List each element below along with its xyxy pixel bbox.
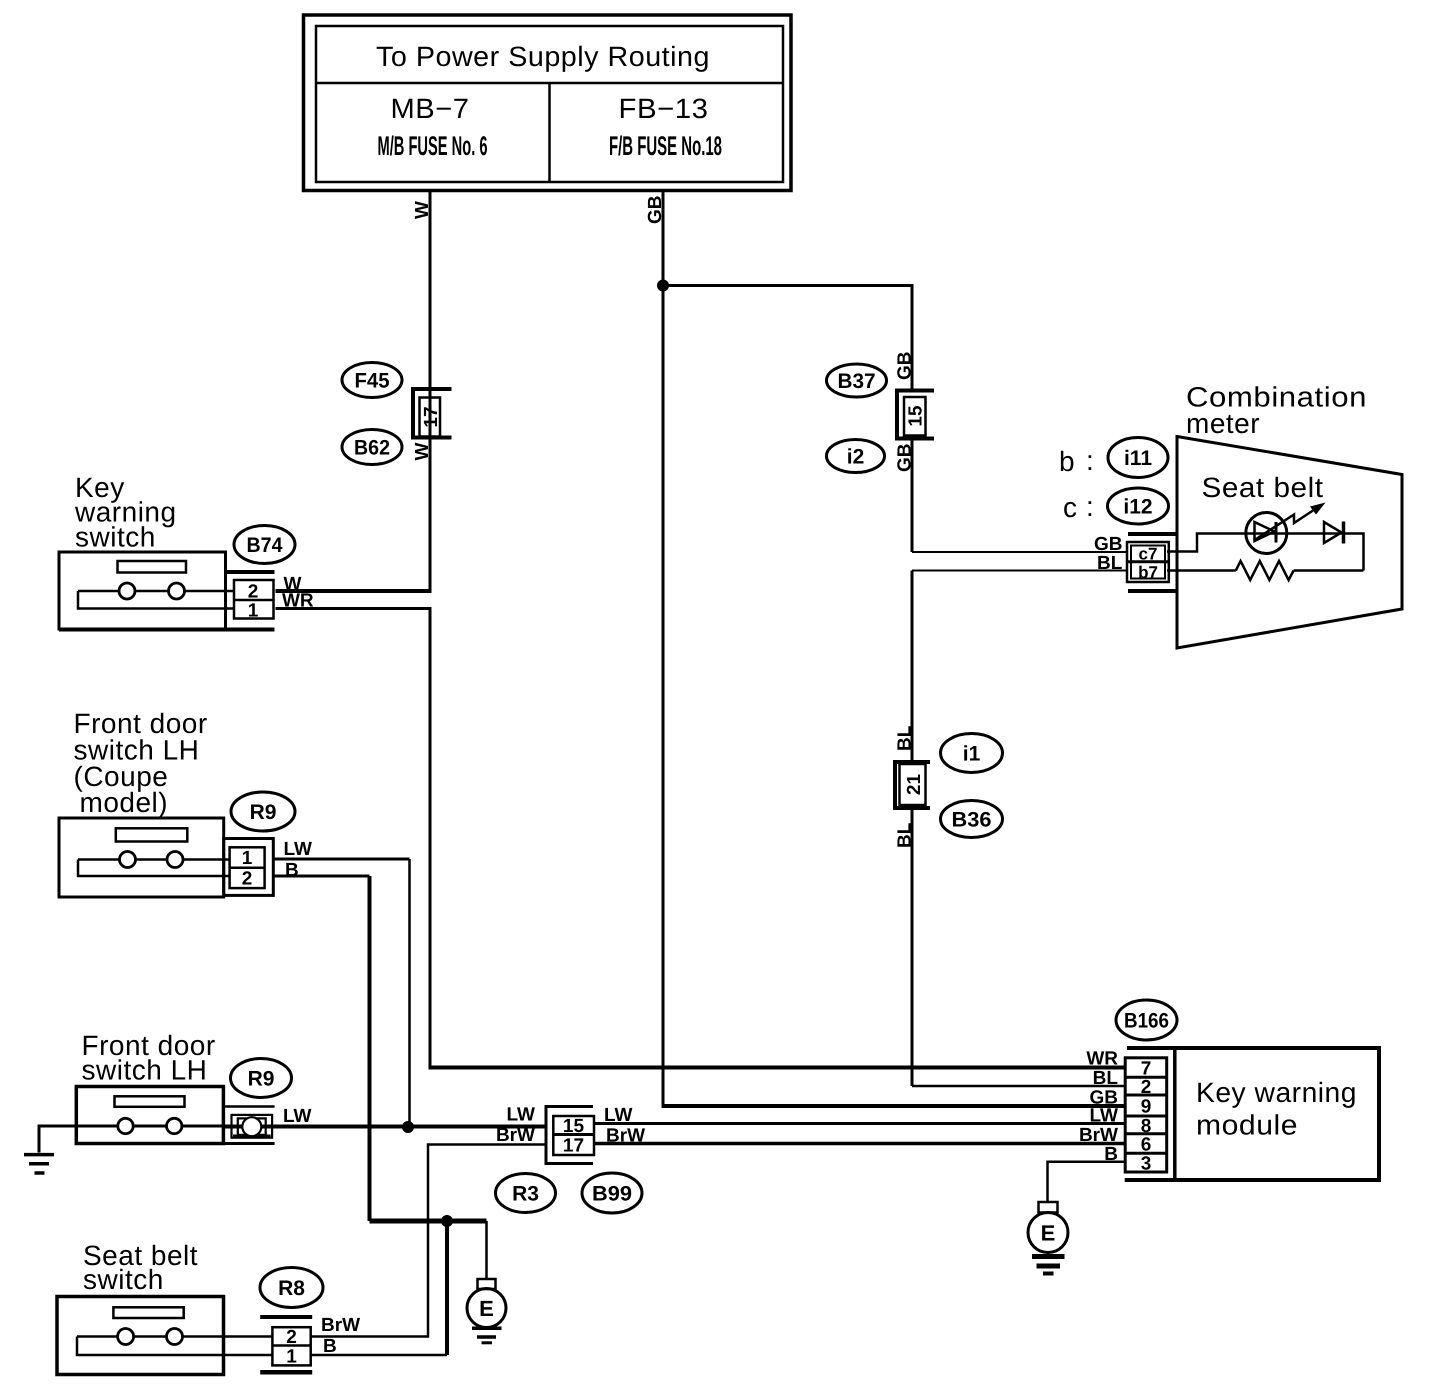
wire GB: connector 15 to meter c7 bbox=[911, 439, 914, 553]
wire BrW: connector 17 to module pin 6 bbox=[594, 1142, 1126, 1146]
svg-text:LW: LW bbox=[1090, 1106, 1119, 1127]
ellipse R8 bbox=[260, 1268, 323, 1308]
ellipse R3 bbox=[496, 1174, 556, 1213]
combination meter outline bbox=[1177, 437, 1402, 649]
svg-text:1: 1 bbox=[248, 601, 259, 622]
wire LW: front door switch to connector 15 bbox=[223, 1125, 546, 1129]
svg-text:17: 17 bbox=[563, 1136, 584, 1157]
svg-text:meter: meter bbox=[1186, 408, 1260, 439]
connector R9 coupe (pins 1/2) bbox=[224, 839, 274, 896]
wire GB branch to combination meter bbox=[663, 286, 912, 391]
svg-text:R9: R9 bbox=[248, 1068, 275, 1091]
svg-text:2: 2 bbox=[286, 1327, 297, 1348]
wire B: coupe door switch pin 2 to ground run bbox=[273, 875, 369, 878]
ellipse B166 bbox=[1116, 1000, 1177, 1040]
junction: GB branch node bbox=[657, 280, 669, 292]
svg-text:21: 21 bbox=[904, 774, 925, 796]
svg-text:1: 1 bbox=[242, 848, 253, 869]
ellipse i12 bbox=[1108, 488, 1169, 524]
svg-text:GB: GB bbox=[895, 444, 916, 473]
svg-text:i11: i11 bbox=[1124, 447, 1152, 470]
svg-text:B36: B36 bbox=[952, 809, 992, 832]
ellipse B37 bbox=[827, 364, 887, 397]
svg-text:15: 15 bbox=[563, 1116, 585, 1137]
ground wire (front door switch) bbox=[39, 1126, 76, 1153]
key warning switch bbox=[59, 552, 234, 629]
svg-text:module: module bbox=[1196, 1110, 1298, 1141]
wire: b7 to resistor bbox=[1167, 569, 1236, 572]
wire LW: coupe door switch to junction bbox=[273, 858, 409, 861]
svg-text:BL: BL bbox=[895, 822, 916, 848]
svg-text:R8: R8 bbox=[278, 1277, 305, 1300]
ground E symbol (module) bbox=[1028, 1202, 1068, 1253]
svg-text:2: 2 bbox=[1141, 1077, 1152, 1098]
svg-text:LW: LW bbox=[507, 1105, 536, 1126]
wire BL: meter b7 to connector 21 bbox=[912, 570, 1127, 572]
svg-text:GB: GB bbox=[895, 352, 916, 381]
svg-text:B166: B166 bbox=[1124, 1010, 1169, 1033]
svg-text:B37: B37 bbox=[838, 370, 876, 393]
ellipse F45 bbox=[342, 363, 402, 398]
wire BL: connector 21 down to module pin 2 bbox=[911, 808, 914, 1086]
svg-text:To Power Supply Routing: To Power Supply Routing bbox=[376, 41, 710, 72]
wire LW: connector 15 to module pin 8 bbox=[594, 1122, 1126, 1125]
junction: LW node bbox=[402, 1121, 414, 1133]
power supply box bbox=[304, 15, 792, 191]
connector i1/B36 (pin 21) bbox=[895, 762, 930, 808]
svg-text:1: 1 bbox=[286, 1347, 297, 1368]
svg-text:R9: R9 bbox=[250, 801, 277, 824]
wire WR: key warning switch pin 1 to module pin 7 bbox=[276, 609, 431, 1068]
ground E symbol (left) bbox=[467, 1279, 506, 1328]
seat belt switch bbox=[57, 1297, 272, 1375]
svg-text:2: 2 bbox=[248, 582, 259, 603]
svg-text:B99: B99 bbox=[592, 1183, 632, 1206]
LED arrow bbox=[1255, 511, 1314, 541]
svg-text:c: c bbox=[1063, 492, 1078, 523]
svg-text::: : bbox=[1086, 491, 1094, 522]
svg-text:BrW: BrW bbox=[1079, 1125, 1118, 1146]
svg-text:MB−7: MB−7 bbox=[391, 93, 470, 124]
front door switch LH bbox=[76, 1087, 231, 1144]
ellipse i1 bbox=[941, 734, 1003, 773]
connector B37/i2 (pin 15) bbox=[897, 391, 934, 439]
svg-text:B62: B62 bbox=[354, 437, 390, 460]
wire B: module pin 3 to ground E bbox=[1048, 1162, 1126, 1202]
connector c7/b7 (meter) bbox=[1127, 534, 1177, 591]
svg-text:i2: i2 bbox=[847, 446, 865, 469]
connector R3/B99 (pins 15/17) bbox=[546, 1107, 594, 1164]
svg-text:i1: i1 bbox=[963, 743, 981, 766]
ellipse i11 bbox=[1108, 438, 1168, 478]
svg-text:LW: LW bbox=[284, 839, 313, 860]
diode D1 bbox=[1324, 522, 1344, 544]
svg-text:B74: B74 bbox=[247, 534, 283, 557]
svg-text:Key warning: Key warning bbox=[1196, 1077, 1357, 1108]
ellipse B99 bbox=[582, 1173, 642, 1213]
wire BrW: connector 17 to seat belt switch pin 2 bbox=[311, 1145, 546, 1337]
svg-text:M/B FUSE No. 6: M/B FUSE No. 6 bbox=[378, 131, 488, 161]
wire to ground E (left) bbox=[485, 1221, 488, 1280]
svg-text:W: W bbox=[412, 443, 433, 461]
svg-text:FB−13: FB−13 bbox=[619, 93, 709, 124]
svg-text:b7: b7 bbox=[1138, 563, 1158, 582]
svg-text:R3: R3 bbox=[512, 1183, 539, 1206]
ellipse B62 bbox=[342, 430, 402, 465]
svg-text:2: 2 bbox=[242, 869, 253, 890]
svg-text:BL: BL bbox=[1097, 553, 1123, 574]
svg-text:LW: LW bbox=[283, 1106, 312, 1127]
wire B: seat belt switch pin 1 to ground junction bbox=[311, 1354, 447, 1357]
connector B74 (pins 2/1) bbox=[59, 572, 275, 630]
connector R9 (single pin) bbox=[223, 1107, 274, 1144]
svg-text:BrW: BrW bbox=[321, 1315, 360, 1336]
svg-text:switch LH: switch LH bbox=[82, 1055, 208, 1086]
svg-text:Seat belt: Seat belt bbox=[1202, 472, 1324, 503]
svg-text:BL: BL bbox=[1093, 1068, 1119, 1089]
svg-text:model): model) bbox=[80, 787, 169, 818]
ellipse B74 bbox=[234, 526, 295, 564]
svg-text:b: b bbox=[1059, 446, 1075, 477]
ellipse B36 bbox=[941, 801, 1003, 838]
svg-text:GB: GB bbox=[645, 196, 666, 225]
svg-text:BrW: BrW bbox=[496, 1125, 535, 1146]
wire W: fuse MB-7 down to key warning switch pin 2 bbox=[429, 191, 432, 592]
seat belt warning lamp (LED) bbox=[1246, 513, 1287, 554]
svg-text:E: E bbox=[1041, 1221, 1056, 1246]
wire B: ground run bbox=[370, 1219, 487, 1224]
svg-text:F/B FUSE No.18: F/B FUSE No.18 bbox=[609, 131, 722, 161]
svg-text:switch: switch bbox=[83, 1264, 164, 1295]
svg-text:B: B bbox=[285, 860, 299, 881]
svg-text:switch: switch bbox=[75, 522, 156, 553]
wire: c7 through seat belt lamp bbox=[1167, 534, 1364, 571]
svg-text:9: 9 bbox=[1141, 1097, 1152, 1118]
ground symbol (front door switch) bbox=[24, 1155, 54, 1173]
front door switch LH (coupe) bbox=[59, 818, 230, 897]
key warning module box bbox=[1125, 1048, 1379, 1180]
ellipse R9 (coupe) bbox=[231, 792, 295, 831]
svg-text::: : bbox=[1086, 445, 1094, 476]
svg-text:17: 17 bbox=[421, 406, 442, 427]
svg-text:i12: i12 bbox=[1123, 496, 1152, 519]
svg-text:15: 15 bbox=[906, 405, 927, 427]
svg-text:BL: BL bbox=[895, 725, 916, 751]
svg-text:c7: c7 bbox=[1139, 545, 1158, 564]
connector F45/B62 (pin 17) bbox=[413, 389, 452, 438]
svg-text:GB: GB bbox=[1094, 534, 1123, 555]
svg-text:W: W bbox=[412, 201, 433, 219]
connector B166 column bbox=[1125, 1058, 1167, 1172]
connector R8 (pins 2/1) bbox=[260, 1317, 312, 1372]
svg-text:6: 6 bbox=[1141, 1134, 1152, 1155]
svg-text:WR: WR bbox=[1086, 1049, 1118, 1070]
wire GB: fuse FB-13 down to key warning module pin 9 bbox=[662, 191, 665, 1107]
junction: B ground node bbox=[441, 1215, 453, 1227]
resistor R (seat belt) bbox=[1236, 561, 1294, 580]
svg-text:E: E bbox=[479, 1296, 494, 1321]
ellipse R9 bbox=[231, 1059, 292, 1098]
svg-text:F45: F45 bbox=[355, 370, 390, 393]
svg-text:3: 3 bbox=[1141, 1154, 1152, 1175]
ellipse i2 bbox=[827, 440, 885, 473]
